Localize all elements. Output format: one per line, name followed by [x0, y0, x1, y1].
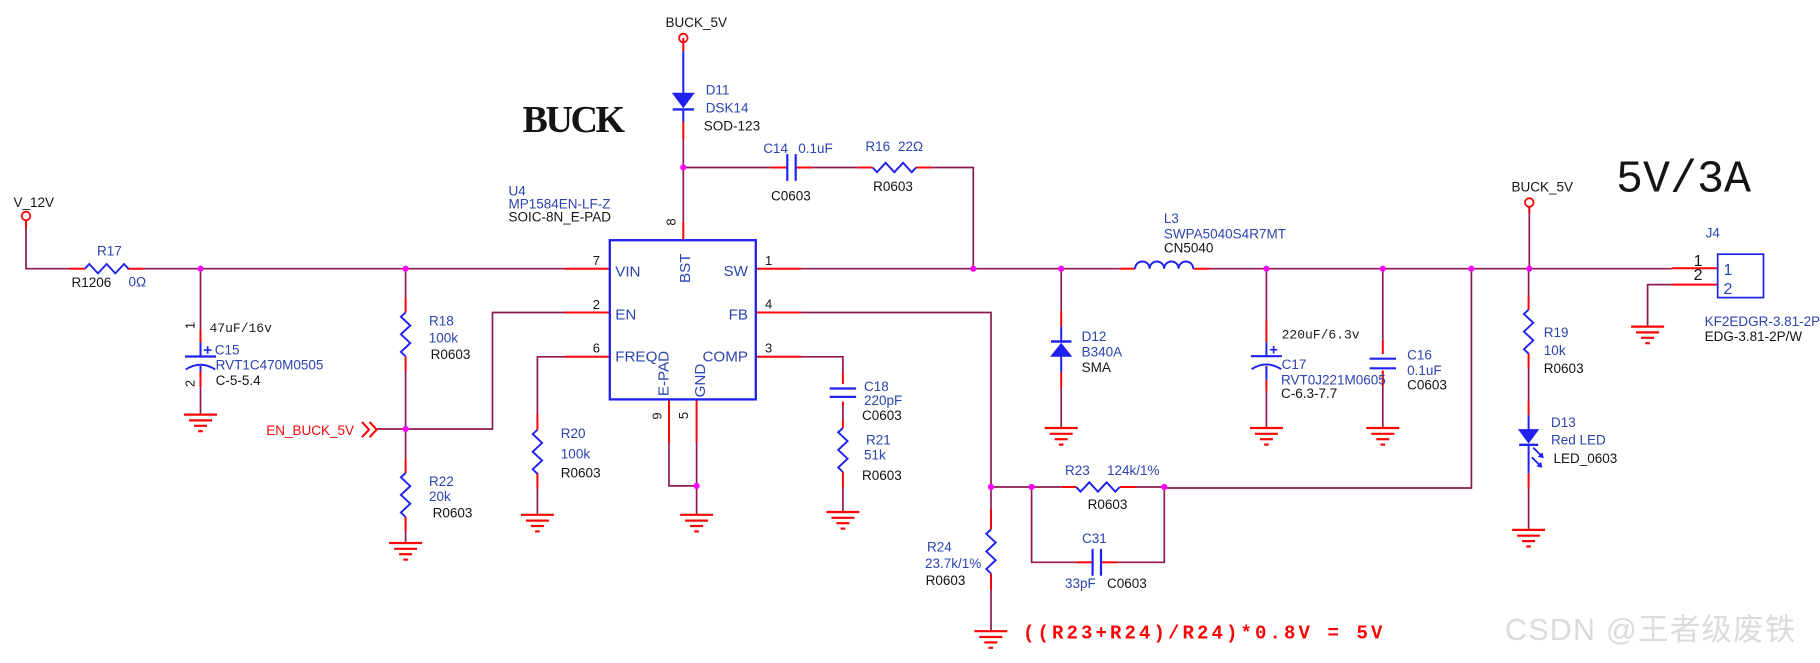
svg-text:CSDN @王者级废铁: CSDN @王者级废铁: [1505, 613, 1797, 647]
svg-text:C15: C15: [215, 343, 240, 358]
svg-text:V_12V: V_12V: [14, 195, 55, 210]
svg-text:R19: R19: [1544, 325, 1569, 340]
svg-text:R18: R18: [429, 313, 454, 328]
svg-text:C31: C31: [1082, 531, 1107, 546]
svg-text:VIN: VIN: [615, 263, 640, 280]
svg-text:C0603: C0603: [1407, 378, 1447, 393]
svg-text:SOIC-8N_E-PAD: SOIC-8N_E-PAD: [509, 210, 612, 225]
svg-text:0.1uF: 0.1uF: [1407, 363, 1442, 378]
svg-text:R0603: R0603: [561, 466, 601, 481]
svg-text:2: 2: [183, 380, 198, 387]
svg-text:D11: D11: [706, 82, 730, 97]
svg-text:220uF/6.3v: 220uF/6.3v: [1282, 328, 1360, 343]
svg-text:EN_BUCK_5V: EN_BUCK_5V: [266, 423, 354, 438]
svg-text:E-PAD: E-PAD: [655, 351, 672, 396]
svg-text:COMP: COMP: [702, 349, 748, 366]
svg-text:R0603: R0603: [873, 179, 913, 194]
svg-text:R0603: R0603: [862, 468, 902, 483]
svg-text:C0603: C0603: [771, 188, 811, 203]
svg-text:2: 2: [1694, 267, 1703, 284]
svg-text:R0603: R0603: [1088, 497, 1128, 512]
svg-text:KF2EDGR-3.81-2P: KF2EDGR-3.81-2P: [1705, 314, 1820, 329]
svg-text:R24: R24: [927, 539, 952, 554]
svg-text:D12: D12: [1082, 329, 1107, 344]
svg-text:R22: R22: [429, 474, 454, 489]
svg-text:BST: BST: [677, 253, 694, 283]
svg-text:0Ω: 0Ω: [129, 275, 147, 290]
svg-text:4: 4: [765, 297, 772, 312]
svg-text:33pF: 33pF: [1065, 576, 1096, 591]
svg-text:LED_0603: LED_0603: [1554, 451, 1618, 466]
svg-text:R0603: R0603: [431, 347, 471, 362]
svg-text:FREQ: FREQ: [615, 349, 657, 366]
svg-text:9: 9: [650, 412, 665, 419]
svg-text:47uF/16v: 47uF/16v: [210, 321, 273, 336]
svg-text:GND: GND: [692, 364, 709, 398]
svg-text:10k: 10k: [1544, 343, 1566, 358]
svg-text:FB: FB: [729, 307, 748, 324]
svg-text:R21: R21: [866, 433, 891, 448]
svg-text:SOD-123: SOD-123: [704, 118, 760, 133]
svg-text:EDG-3.81-2P/W: EDG-3.81-2P/W: [1705, 329, 1803, 344]
svg-text:22Ω: 22Ω: [898, 139, 923, 154]
svg-text:23.7k/1%: 23.7k/1%: [925, 556, 981, 571]
svg-text:CN5040: CN5040: [1164, 241, 1214, 256]
svg-text:C0603: C0603: [862, 408, 902, 423]
svg-text:EN: EN: [615, 307, 636, 324]
svg-text:R20: R20: [561, 426, 586, 441]
svg-text:1: 1: [765, 253, 772, 268]
svg-text:R0603: R0603: [926, 573, 966, 588]
svg-text:C17: C17: [1282, 357, 1307, 372]
svg-text:C14: C14: [763, 141, 788, 156]
svg-text:R17: R17: [97, 244, 122, 259]
svg-text:220pF: 220pF: [864, 393, 902, 408]
svg-text:BUCK_5V: BUCK_5V: [666, 15, 728, 30]
svg-text:BUCK_5V: BUCK_5V: [1512, 180, 1574, 195]
svg-text:2: 2: [1724, 281, 1733, 298]
svg-text:C-6.3-7.7: C-6.3-7.7: [1281, 386, 1337, 401]
svg-text:6: 6: [593, 341, 600, 356]
svg-text:100k: 100k: [429, 331, 459, 346]
svg-text:8: 8: [664, 218, 679, 225]
svg-text:((R23+R24)/R24)*0.8V = 5V: ((R23+R24)/R24)*0.8V = 5V: [1023, 623, 1386, 645]
svg-text:BUCK: BUCK: [523, 99, 626, 141]
svg-text:5: 5: [676, 412, 691, 419]
svg-text:DSK14: DSK14: [706, 100, 749, 115]
svg-text:D13: D13: [1551, 415, 1576, 430]
svg-text:Red LED: Red LED: [1551, 433, 1606, 448]
svg-text:124k/1%: 124k/1%: [1107, 463, 1160, 478]
svg-text:5V/3A: 5V/3A: [1616, 154, 1751, 205]
svg-text:R1206: R1206: [72, 275, 112, 290]
svg-text:1: 1: [1724, 262, 1733, 279]
svg-text:L3: L3: [1164, 211, 1179, 226]
svg-text:RVT1C470M0505: RVT1C470M0505: [216, 358, 324, 373]
svg-text:100k: 100k: [561, 447, 591, 462]
svg-text:2: 2: [593, 297, 600, 312]
svg-text:1: 1: [183, 322, 198, 329]
svg-text:R0603: R0603: [1544, 361, 1584, 376]
svg-text:J4: J4: [1706, 226, 1721, 241]
svg-text:0.1uF: 0.1uF: [798, 141, 833, 156]
svg-text:B340A: B340A: [1082, 345, 1123, 360]
svg-text:C18: C18: [864, 379, 889, 394]
svg-text:7: 7: [593, 253, 600, 268]
svg-text:C0603: C0603: [1107, 576, 1147, 591]
svg-text:20k: 20k: [429, 489, 451, 504]
svg-text:3: 3: [765, 340, 772, 355]
svg-text:R0603: R0603: [433, 506, 473, 521]
svg-text:51k: 51k: [864, 448, 886, 463]
svg-text:C-5-5.4: C-5-5.4: [216, 373, 262, 388]
svg-text:SMA: SMA: [1082, 360, 1111, 375]
svg-text:SW: SW: [724, 263, 749, 280]
svg-text:R23: R23: [1065, 463, 1090, 478]
svg-text:R16: R16: [865, 139, 890, 154]
svg-text:SWPA5040S4R7MT: SWPA5040S4R7MT: [1164, 227, 1286, 242]
svg-text:C16: C16: [1407, 347, 1432, 362]
